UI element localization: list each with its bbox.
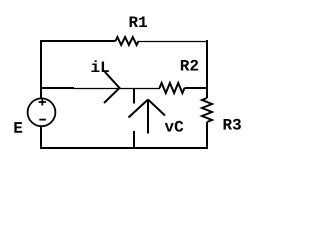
wire middle-left	[40, 87, 74, 89]
resistor R2	[160, 83, 185, 93]
voltage source E	[28, 98, 56, 126]
label R2	[181, 60, 198, 71]
resistor R1	[116, 37, 139, 45]
resistor R3	[202, 98, 212, 122]
wire bottom	[40, 147, 208, 149]
wire left upper	[40, 40, 42, 99]
wire top-left segment	[40, 40, 116, 42]
label vC	[165, 121, 184, 132]
label R1	[130, 16, 147, 27]
wire left lower	[40, 126, 42, 149]
wire middle-right	[185, 87, 209, 89]
wire right lower	[206, 122, 208, 149]
capacitor C bottom lead	[133, 131, 135, 148]
wire middle-left thin part	[73, 88, 160, 90]
current arrow iL	[104, 72, 120, 103]
wire top-right segment	[139, 41, 207, 43]
capacitor C top lead	[133, 88, 135, 104]
label R3	[224, 119, 241, 130]
label iL	[91, 60, 108, 72]
label E	[14, 122, 22, 133]
voltage arrow vC	[129, 100, 166, 134]
wire right upper	[206, 40, 208, 98]
